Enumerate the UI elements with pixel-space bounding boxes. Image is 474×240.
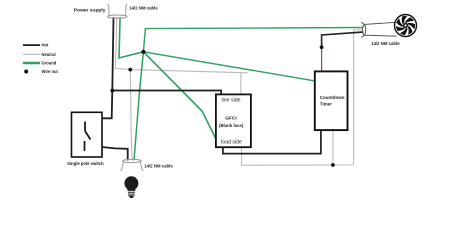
svg-text:load side: load side xyxy=(221,140,242,146)
wire: hot feed to GFCI line side (black) xyxy=(112,91,221,95)
cable clamp: light 14/2 NM xyxy=(121,159,144,171)
svg-text:Wire nut: Wire nut xyxy=(42,69,59,74)
GFCI box xyxy=(216,94,251,147)
wire: hot from power supply (black) xyxy=(102,17,114,118)
svg-text:(Blank face): (Blank face) xyxy=(219,123,244,128)
switch box xyxy=(72,112,103,157)
svg-text:Countdown: Countdown xyxy=(320,95,345,100)
wire: timer switched output (red) xyxy=(321,47,323,71)
svg-text:Timer: Timer xyxy=(320,101,332,106)
wire: ground to fan (green) xyxy=(143,28,362,52)
legend: hot xyxy=(23,44,40,46)
svg-text:Single pole switch: Single pole switch xyxy=(67,161,104,166)
cable clamp: fan 14/2 NM xyxy=(361,22,396,37)
svg-text:Hot: Hot xyxy=(42,43,49,48)
svg-text:Power supply: Power supply xyxy=(74,7,106,13)
ground junction node xyxy=(141,50,145,54)
wire: fan neutral (gray) xyxy=(354,30,364,165)
svg-text:GFCI: GFCI xyxy=(225,116,237,122)
wire: timer neutral (gray) xyxy=(332,130,334,165)
wire nut: neutral tap xyxy=(128,68,132,72)
wire: ground to GFCI (green) xyxy=(143,52,216,139)
wire: ground to countdown timer (green) xyxy=(143,52,315,81)
wire nut: neutral at timer/fan xyxy=(331,163,335,167)
svg-text:Ground: Ground xyxy=(42,61,57,66)
wire: switched hot to light (black) xyxy=(102,147,128,160)
exhaust fan xyxy=(394,14,417,37)
wire: neutral from power supply (gray) xyxy=(115,17,248,73)
countdown timer box xyxy=(315,71,348,130)
cable clamp: power supply 14/2 NM xyxy=(108,4,128,19)
wire: GFCI load hot to timer (black) xyxy=(223,130,321,154)
light bulb xyxy=(124,176,138,198)
wire: GFCI load neutral to wire nut (gray) xyxy=(242,147,354,165)
wire nut: hot tap at switch feed xyxy=(110,89,114,93)
wire: ground from power supply (green) xyxy=(119,17,143,58)
wire nut: fan hot xyxy=(320,45,324,49)
svg-text:14/2 NM cable: 14/2 NM cable xyxy=(371,41,400,46)
wire: neutral to light (gray) xyxy=(130,70,132,161)
legend: ground xyxy=(23,62,40,64)
svg-text:14/2 NM cable: 14/2 NM cable xyxy=(129,5,158,10)
legend: neutral xyxy=(23,53,40,55)
svg-text:line side: line side xyxy=(221,98,240,104)
svg-text:Neutral: Neutral xyxy=(42,52,56,57)
svg-text:14/2 NM cable: 14/2 NM cable xyxy=(144,164,173,169)
wire: hot to fan (black) xyxy=(322,32,364,47)
legend: wire nut xyxy=(24,70,28,74)
wire: ground to light (green) xyxy=(134,52,143,161)
wire: neutral drop to GFCI line side (gray) xyxy=(240,73,242,95)
switch symbol xyxy=(85,122,91,152)
